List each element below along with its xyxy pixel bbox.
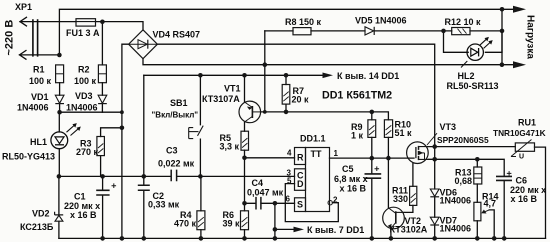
diode VD1 [17,92,64,113]
svg-text:0,047 мк: 0,047 мк [247,187,284,197]
svg-text:SPP20N60S5: SPP20N60S5 [437,135,489,145]
resistor R4 [174,210,205,230]
node R3 branch [120,126,125,131]
wire load branch vertical right [501,9,503,64]
wire S node down to ground [274,203,276,238]
MOSFET VT3 [407,133,437,163]
svg-text:100 к: 100 к [74,76,97,86]
trimmer R14 [474,191,499,221]
svg-text:VD3: VD3 [75,91,93,101]
svg-text:SB1: SB1 [170,98,188,108]
svg-text:0,68: 0,68 [455,176,473,186]
node C4 left [242,201,247,206]
svg-text:1N4006: 1N4006 [17,103,49,113]
wire VD2 leads [58,176,60,238]
resistor R12 [445,17,482,35]
wire HL1 leads [58,112,60,176]
diode VD7 [430,215,471,233]
svg-text:HL2: HL2 [458,71,475,81]
node +12 rail C2 feed [142,174,147,179]
LED HL2 [461,37,493,68]
node top rail load branch [500,7,505,12]
svg-text:VT3: VT3 [440,122,457,132]
LED HL1 [51,123,81,149]
svg-text:VD4 RS407: VD4 RS407 [153,30,201,40]
wire +12V rail (interrupted by C3) [59,175,295,177]
node R7 bottom [284,110,289,115]
svg-text:VD1: VD1 [31,92,49,102]
wire +12 distribution line to pin 14 arrow [144,74,323,76]
wire R13 R14 column [476,159,478,238]
wire R14 wiper to ground [489,210,494,239]
wire R8 node down to VT1 base node [264,31,266,112]
svg-text:4,7: 4,7 [484,198,497,208]
resistor R6 [223,210,249,230]
svg-text:S: S [297,200,303,210]
svg-text:0,022 мк: 0,022 мк [158,159,195,169]
wire VT1 base line to R7 R9 R10 [261,112,389,120]
svg-text:DD1.1: DD1.1 [300,134,326,144]
wire C4 / pin 6 S line [245,202,295,204]
node mains bottom prong / R1 [57,53,62,58]
svg-text:RL50-SR113: RL50-SR113 [447,81,499,91]
node fuse output / R2 [100,20,105,25]
node VD1 cathode [57,110,62,115]
svg-text:х 16 В: х 16 В [511,194,538,204]
switch SB1 [189,126,204,139]
svg-text:5: 5 [287,177,292,186]
svg-text:C3: C3 [166,146,178,156]
wire top rail from mains bottom prong to load arrow [59,9,514,55]
svg-text:RU1: RU1 [518,118,536,128]
svg-text:х 16 В: х 16 В [340,184,367,194]
capacitor C1 [64,183,116,220]
svg-text:C6: C6 [516,176,528,186]
capacitor C5 [334,164,381,194]
wire HL2 branch [444,31,503,52]
wire top mains prong to fuse to bridge top [20,22,143,30]
resistor R11 [392,185,417,205]
node R7 top [284,73,289,78]
wire pin 2 feedback loop to D input [285,184,338,222]
resistor R8 [285,17,322,35]
svg-text:6: 6 [286,195,291,204]
svg-text:TNR10G471K: TNR10G471K [493,128,546,138]
wire SB1 verticals and R4 branch [199,75,202,238]
svg-text:270 к: 270 к [76,147,99,157]
capacitor C6 [496,171,546,204]
ground rail dots [100,236,105,241]
node R9 top [370,110,375,115]
wire +12 feed line with C2 branch [143,75,145,238]
wire R7 leads [285,75,287,112]
node VT1 emitter [242,73,247,78]
svg-text:ТТ: ТТ [311,149,322,159]
svg-text:VD5 1N4006: VD5 1N4006 [355,16,407,26]
node +12 rail HL1 VD2 [57,174,62,179]
svg-text:VT1: VT1 [224,84,241,94]
wire pin 7 arrow line [275,228,294,230]
svg-text:КТ3102А: КТ3102А [390,225,428,235]
wire bridge minus column down to ground rail [122,44,129,238]
svg-text:4: 4 [287,149,292,158]
svg-text:КС213Б: КС213Б [20,222,54,232]
wire VD1-VD3 cathode link to bridge minus column [60,111,122,113]
svg-text:R8 150 к: R8 150 к [285,17,322,27]
zener diode VD2 [20,209,63,233]
wire drain line to varistor [428,146,515,148]
svg-text:D: D [297,179,304,189]
svg-text:1N4006: 1N4006 [66,103,98,113]
node VT3 drain [432,144,437,149]
svg-text:R2: R2 [78,65,90,75]
resistor R10 [384,120,412,139]
svg-text:39 к: 39 к [223,219,241,229]
svg-text:1 к: 1 к [351,131,364,141]
node VT3 source [432,157,437,162]
wire bridge plus to VT3 drain column [157,44,434,146]
svg-text:6,8 мк х: 6,8 мк х [334,174,368,184]
node load return [500,62,505,67]
wire pin 1 output to VT3 gate [330,157,415,159]
wire R3 branch [101,128,122,177]
node pin1 R9 C5 [370,156,375,161]
diode VD3 [66,91,107,113]
arrow to pin 7 DD1 [294,225,365,235]
node pin 7 arrow [273,227,278,232]
flip-flop DD1.1 [295,148,333,212]
svg-text:1N4006: 1N4006 [440,195,472,205]
wire ground rail [59,237,546,239]
wire C6 bottom lead [503,181,505,239]
svg-text:VD2: VD2 [32,209,50,219]
svg-text:20 к: 20 к [292,95,310,105]
wire R8 VD5 R12 line [265,30,502,32]
wire R1 to VD1 [59,83,61,113]
svg-text:FU1 3 А: FU1 3 А [66,28,100,38]
capacitor C4 [247,178,284,210]
wire VT2 emitter to ground [390,229,392,239]
wire pin 4 R input line [245,157,295,159]
wire R10 bottom to gate line and VT2 collector [387,137,389,207]
svg-text:Нагрузка: Нагрузка [525,15,536,59]
svg-text:XP1: XP1 [15,2,32,12]
resistor R7 [282,85,309,105]
diode VD5 [355,16,407,36]
node SB1 top [198,73,203,78]
wire C5 leads [371,158,373,238]
resistor R2 [74,65,106,87]
svg-text:1N4006: 1N4006 [440,224,472,234]
node R8 on AC2 line [263,62,268,67]
svg-text:HL1: HL1 [30,137,47,147]
resistor R5 [220,131,249,151]
svg-text:К выв. 14 DD1: К выв. 14 DD1 [337,71,399,81]
wire R9 leads [371,112,373,158]
svg-text:R: R [297,153,304,163]
svg-text:470 к: 470 к [174,219,197,229]
wire source line to C6 [428,159,504,176]
wire varistor to ground right edge [535,147,546,238]
wire bottom mains prong [20,54,60,56]
node R5 bottom pin 4 [242,156,247,161]
svg-text:51 к: 51 к [395,128,413,138]
resistor R13 [455,167,482,186]
arrow to pin 14 DD1 [323,71,400,81]
resistor R1 [29,65,64,87]
connector XP1 [20,17,38,60]
resistor R3 [76,137,104,158]
resistor R9 [351,120,376,141]
node gate R10 VT2 [386,156,391,161]
svg-text:х 16 В: х 16 В [70,210,97,220]
svg-text:К выв. 7 DD1: К выв. 7 DD1 [307,225,364,235]
svg-text:"Вкл/Выкл": "Вкл/Выкл" [152,110,199,119]
wire fuse output down to R2 [101,22,103,65]
node +12 rail R3 C1 [100,174,105,179]
svg-text:0,33 мк: 0,33 мк [148,200,180,210]
svg-text:3,3 к: 3,3 к [220,141,240,151]
svg-text:R1: R1 [33,65,45,75]
wire VT1 emitter / collector / R5 / R pin column [244,75,246,238]
fuse FU1 [66,19,100,38]
node C4 right pin 6 [273,201,278,206]
wire R11 top to VT3 source [412,163,414,186]
node R13 top [475,157,480,162]
svg-text:U: U [519,154,524,161]
node +12 rail SB1 R4 [198,174,203,179]
wire VT2 base to R11 [404,205,413,212]
svg-text:DD1 К561ТМ2: DD1 К561ТМ2 [322,90,392,102]
node R12 HL2 right [500,29,505,34]
diode VD6 [430,187,471,205]
capacitor C3 [158,146,195,182]
transistor VT2 [383,207,405,229]
svg-text:2: 2 [333,196,338,205]
svg-text:R12 10 к: R12 10 к [445,17,482,27]
wire C1 leads [102,176,104,238]
load arrows and label [513,6,536,68]
svg-text:~220 В: ~220 В [4,20,16,56]
bridge rectifier VD4 [129,30,158,59]
svg-text:1: 1 [334,149,339,158]
svg-text:КТ3107А: КТ3107А [202,94,240,104]
node VD5 R12 HL2 left [441,29,446,34]
wire R2 to VD3 to VD1 cathode line [101,83,103,113]
wire bridge AC2 to load line [143,59,514,65]
svg-text:C5: C5 [342,164,354,174]
transistor VT1 [239,101,261,123]
wire drain-source link and VD6 VD7 chain [434,147,436,239]
varistor RU1 [493,118,546,161]
capacitor C2 [138,185,180,209]
svg-text:100 к: 100 к [29,76,52,86]
svg-text:330: 330 [393,194,408,204]
node VT1 base / R8 divider [263,110,267,114]
node minus column VD link [120,110,124,114]
svg-text:RL50-YG413: RL50-YG413 [2,152,55,162]
